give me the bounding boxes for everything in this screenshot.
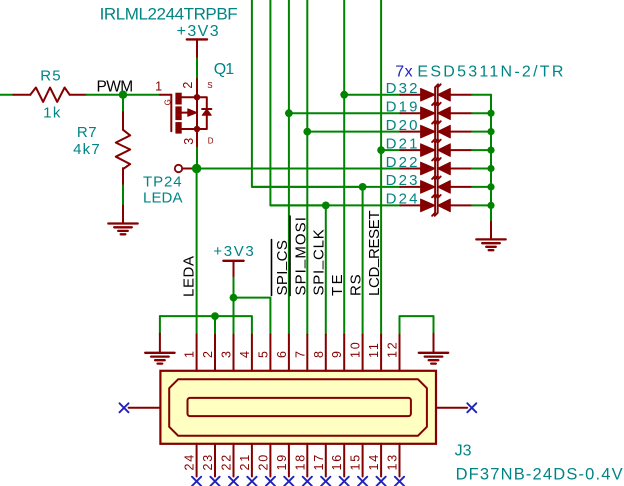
svg-text:PWM: PWM (96, 78, 132, 95)
diode D32 cathode Z-bar 2 (435, 84, 441, 105)
Q1 internal junction bottom (194, 126, 200, 132)
connector pin 21 lead (251, 444, 253, 477)
Q1 body diode cathode bar (202, 108, 211, 110)
connector pin 14 lead (380, 444, 382, 477)
junction bus row D19 (487, 110, 494, 117)
net label SPI_CS overline (271, 240, 273, 296)
svg-text:10: 10 (349, 340, 363, 358)
Q1 channel bar top (175, 93, 181, 105)
svg-text:D: D (208, 137, 214, 146)
connector pin 20 lead (269, 444, 271, 477)
no-connect X pin 22 (229, 477, 238, 486)
power +3V3 symbol bar (187, 38, 207, 40)
connector pin 8 lead (325, 335, 327, 371)
wire SPI_CS vertical (288, 0, 290, 335)
diode D23 cathode Z-bar 2 (435, 177, 441, 198)
diode D21 right lead (450, 149, 472, 151)
svg-text:7: 7 (293, 349, 307, 358)
ground symbol pin left (159, 334, 161, 353)
wire D32 to ground bus (472, 94, 491, 96)
connector pin 6 lead (288, 335, 290, 371)
no-connect X pin 19 (284, 477, 293, 486)
wire pin 2 to ground rail (214, 316, 216, 335)
no-connect X pin 20 (266, 477, 275, 486)
diode D21 right triangle (438, 144, 451, 157)
ground below R7 (108, 224, 137, 235)
wire SPI_CLK drop to pin 8 (325, 205, 327, 334)
wire LEDA down to pin 1 (196, 169, 198, 335)
ground right of connector (419, 353, 448, 364)
diode D24 left lead (400, 204, 420, 206)
diode D23 cathode Z-bar 1 (432, 177, 438, 198)
connector pin 11 lead (380, 335, 382, 371)
junction D20/SPI_MOSI (303, 128, 311, 136)
svg-text:18: 18 (293, 453, 307, 471)
junction +3V3/pin3 node (230, 294, 238, 302)
wire branch to D21 (381, 149, 400, 151)
svg-text:TE: TE (329, 272, 346, 296)
svg-text:3: 3 (220, 349, 234, 358)
wire D20 to ground bus (472, 131, 491, 133)
resistor R7 body (116, 130, 130, 169)
wire branch to D19 (289, 112, 401, 114)
svg-text:4k7: 4k7 (73, 141, 101, 158)
svg-text:17: 17 (312, 453, 326, 471)
junction bus row D20 (487, 128, 494, 135)
test point TP24 lead (182, 168, 194, 170)
connector J3 left mount lead (129, 407, 161, 409)
diode D32 left lead (400, 94, 420, 96)
diode D23 right lead (450, 186, 472, 188)
svg-text:1: 1 (183, 349, 197, 358)
wire +3V3 down to node (233, 278, 235, 298)
svg-text:+3V3: +3V3 (213, 243, 255, 260)
connector pin 19 lead (288, 444, 290, 477)
junction LEDA node (192, 164, 201, 173)
connector pin 7 lead (306, 335, 308, 371)
svg-text:R7: R7 (77, 124, 97, 141)
diode D24 right triangle (438, 199, 451, 212)
power +3V3 bar (pin 3) (223, 260, 243, 262)
Q1 body diode branch top (197, 97, 207, 109)
diode D22 left lead (400, 168, 420, 170)
connector J3 octagon outline (169, 379, 427, 436)
Q1 source pin lead (196, 79, 198, 97)
svg-text:11: 11 (367, 341, 381, 358)
svg-text:22: 22 (220, 453, 234, 471)
connector pin 15 lead (362, 444, 364, 477)
connector pin 16 lead (343, 444, 345, 477)
junction pin2/ground (211, 312, 219, 320)
diode D20 right lead (450, 131, 472, 133)
diode D19 left lead (400, 112, 420, 114)
svg-text:2: 2 (201, 349, 215, 358)
svg-text:12: 12 (386, 340, 400, 358)
diode D21 cathode Z-bar 1 (432, 140, 438, 161)
svg-text:19: 19 (275, 453, 289, 471)
diode D22 left triangle (421, 162, 436, 175)
connector J3 slot (188, 398, 411, 416)
diode D22 right lead (450, 168, 472, 170)
svg-text:+3V3: +3V3 (177, 23, 220, 40)
svg-text:1: 1 (155, 80, 162, 94)
connector pin 22 lead (233, 444, 235, 477)
diode D19 left triangle (421, 107, 436, 120)
no-connect X left (120, 403, 129, 412)
wire TE vertical (343, 0, 345, 335)
wire D24 to ground bus (472, 204, 491, 206)
connector pin 10 lead (362, 335, 364, 371)
no-connect X right (467, 403, 476, 412)
ground symbol pin right (433, 334, 435, 353)
diode D20 left lead (400, 131, 420, 133)
diode D23 right triangle (438, 181, 451, 194)
wire R5 to PWM node (86, 94, 160, 96)
connector pin 13 lead (399, 444, 401, 477)
connector J3 body (160, 371, 436, 444)
junction D23/RS (359, 183, 367, 191)
diode D20 cathode Z-bar 1 (432, 121, 438, 142)
connector pin 1 lead (196, 335, 198, 371)
resistor R7 pin 2 lead (122, 168, 124, 185)
diode D24 cathode Z-bar 2 (435, 195, 441, 216)
Q1 gate bar (170, 95, 172, 132)
no-connect X pin 17 (321, 477, 330, 486)
Q1 channel bar middle (175, 106, 181, 120)
resistor R5 body (30, 88, 69, 102)
connector pin 18 lead (306, 444, 308, 477)
connector J3 right mount lead (436, 407, 467, 409)
no-connect X pin 15 (358, 477, 367, 486)
svg-text:9: 9 (330, 349, 344, 358)
Q1 drain pin lead (196, 129, 198, 148)
wire PWM node down to R7 (122, 95, 124, 112)
power +3V3 symbol stub (196, 39, 198, 58)
wire SPI_CLK from top (col 2) (270, 0, 325, 205)
connector pin 5 lead (269, 335, 271, 371)
net label SPI_MOSI overline (289, 216, 291, 296)
svg-text:2: 2 (181, 82, 195, 89)
ground symbol pin below diode bus (490, 222, 492, 240)
Q1 body diode branch bottom (197, 115, 207, 129)
wire LCD_RESET vertical (380, 0, 382, 335)
wire branch to D23 (252, 186, 401, 188)
diode D32 right lead (450, 94, 472, 96)
junction bus row D24 (487, 202, 494, 209)
svg-text:16: 16 (330, 453, 344, 471)
junction D24/SPI_CLK (322, 202, 330, 210)
wire ground rail left drop (159, 316, 161, 334)
diode D20 cathode Z-bar 2 (435, 121, 441, 142)
connector pin 3 lead (233, 335, 235, 371)
diode D21 left lead (400, 149, 420, 151)
Q1 body diode triangle (202, 109, 211, 115)
svg-text:ESD5311N-2/TR: ESD5311N-2/TR (417, 64, 565, 81)
diode D21 left triangle (421, 144, 436, 157)
wire branch to D20 (307, 131, 400, 133)
wire +3V3 branch to pin 5 (234, 298, 271, 335)
wire ground rail left (160, 316, 252, 335)
connector pin 12 lead (399, 335, 401, 371)
svg-text:LEDA: LEDA (181, 255, 198, 297)
junction bus row D23 (487, 183, 494, 190)
diode D22 right triangle (438, 162, 451, 175)
resistor R7 pin 1 lead (122, 112, 124, 130)
wire diode ground bus vertical (490, 95, 492, 222)
svg-text:TP24: TP24 (143, 174, 182, 191)
wire branch to D24 (270, 204, 400, 206)
Q1 bulk arrow (P-channel) (188, 109, 197, 116)
diode D19 right lead (450, 112, 472, 114)
no-connect X pin 18 (303, 477, 312, 486)
junction PWM node (119, 91, 127, 99)
diode D19 cathode Z-bar 1 (432, 103, 438, 124)
junction D21/LCD_RESET (377, 146, 385, 154)
wire pin 12 to ground (400, 316, 434, 335)
svg-text:24: 24 (183, 453, 197, 471)
wire branch to D32 (344, 94, 400, 96)
diode D22 cathode Z-bar 2 (435, 158, 441, 179)
svg-text:RS: RS (348, 274, 365, 296)
svg-text:LCD_RESET: LCD_RESET (363, 211, 383, 296)
svg-text:J3: J3 (455, 443, 472, 460)
svg-text:15: 15 (349, 453, 363, 471)
Q1 drain connection (182, 128, 197, 130)
wire D19 to ground bus (472, 112, 491, 114)
svg-text:SPI_MOSI: SPI_MOSI (290, 216, 310, 296)
svg-text:8: 8 (312, 349, 326, 358)
diode D23 left triangle (421, 181, 436, 194)
diode D20 right triangle (438, 125, 451, 138)
wire RS from top (col 1) (252, 0, 363, 187)
junction D19/SPI_CS (285, 109, 293, 117)
Q1 channel bar bottom (175, 122, 181, 134)
svg-text:IRLML2244TRPBF: IRLML2244TRPBF (100, 4, 238, 23)
diode D32 left triangle (421, 88, 436, 101)
wire +3V3 node to pin 3 (233, 298, 235, 335)
connector pin 9 lead (343, 335, 345, 371)
wire PWM to Q1 gate (160, 94, 171, 96)
svg-text:13: 13 (386, 453, 400, 471)
Q1 bulk line (182, 112, 188, 114)
no-connect X pin 14 (377, 477, 386, 486)
diode D19 right triangle (438, 107, 451, 120)
wire R7 to ground (122, 185, 124, 205)
no-connect X pin 24 (192, 477, 201, 486)
junction bus row D21 (487, 147, 494, 154)
connector pin 4 lead (251, 335, 253, 371)
diode D20 left triangle (421, 125, 436, 138)
svg-text:21: 21 (238, 453, 252, 471)
svg-text:R5: R5 (40, 68, 62, 85)
no-connect X pin 21 (247, 477, 256, 486)
wire SPI_MOSI vertical (306, 0, 308, 335)
junction D32/TE (340, 91, 348, 99)
junction bus row D22 (487, 165, 494, 172)
wire +3V3 to Q1 source (196, 58, 198, 79)
ground left of connector (145, 353, 174, 364)
svg-text:7x: 7x (395, 64, 413, 81)
svg-text:SPI_CLK: SPI_CLK (308, 229, 328, 296)
wire branch to D22 (197, 168, 401, 170)
diode D23 left lead (400, 186, 420, 188)
diode D22 cathode Z-bar 1 (432, 158, 438, 179)
Q1 source connection (182, 96, 197, 98)
svg-text:Q1: Q1 (214, 61, 234, 78)
no-connect X pin 23 (210, 477, 219, 486)
svg-text:23: 23 (201, 453, 215, 471)
resistor R5 pin 2 lead (70, 94, 87, 96)
connector pin 23 lead (214, 444, 216, 477)
diode D32 cathode Z-bar 1 (432, 84, 438, 105)
diode D19 cathode Z-bar 2 (435, 103, 441, 124)
svg-text:4: 4 (238, 349, 252, 358)
diode D24 left triangle (421, 199, 436, 212)
wire RS drop to pin 10 (362, 187, 364, 335)
svg-text:6: 6 (275, 349, 289, 358)
svg-text:1k: 1k (43, 105, 62, 122)
connector pin 17 lead (325, 444, 327, 477)
svg-text:5: 5 (256, 349, 270, 358)
diode D21 cathode Z-bar 2 (435, 140, 441, 161)
wire D22 to ground bus (472, 168, 491, 170)
svg-text:DF37NB-24DS-0.4V: DF37NB-24DS-0.4V (456, 466, 624, 484)
svg-text:14: 14 (367, 453, 381, 471)
svg-text:20: 20 (256, 453, 270, 471)
ground symbol pin below R7 (122, 206, 124, 224)
svg-text:LEDA: LEDA (143, 190, 183, 207)
no-connect X pin 13 (395, 477, 404, 486)
diode D24 right lead (450, 204, 472, 206)
test point TP24 circle (175, 165, 182, 172)
wire PWM input from left edge (0, 94, 14, 96)
ground diode array (476, 239, 505, 250)
resistor R5 pin 1 lead (14, 94, 31, 96)
svg-text:3: 3 (182, 138, 196, 145)
connector pin 2 lead (214, 335, 216, 371)
wire D23 to ground bus (472, 186, 491, 188)
connector pin 24 lead (196, 444, 198, 477)
Q1 internal vertical (196, 97, 198, 129)
Q1 internal junction top (194, 94, 200, 100)
wire D21 to ground bus (472, 149, 491, 151)
svg-text:S: S (207, 81, 212, 90)
no-connect X pin 16 (340, 477, 349, 486)
power +3V3 stub (pin 3) (233, 261, 235, 278)
wire Q1 drain to LEDA node (196, 148, 198, 169)
diode D24 cathode Z-bar 1 (432, 195, 438, 216)
diode D32 right triangle (438, 88, 451, 101)
